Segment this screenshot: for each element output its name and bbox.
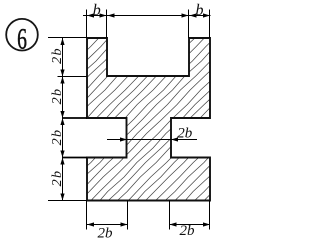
label 2b segment2 xyxy=(50,88,65,105)
arrowhead left-b pointing right xyxy=(100,13,107,17)
arrowhead left chain top pointing up xyxy=(60,38,64,45)
section outline xyxy=(87,38,210,201)
arrowhead right-b pointing right xyxy=(203,13,210,17)
bottom extension line x=169.5 xyxy=(169,201,171,230)
svg-text:2b: 2b xyxy=(98,225,114,241)
arrowhead neck left pointing right xyxy=(120,137,127,141)
arrowhead bottom-right pointing right xyxy=(203,222,210,226)
arrowhead pair at y=118 xyxy=(60,111,64,125)
arrowhead pair at y=157.5 xyxy=(60,151,64,165)
bottom extension line x=127.5 xyxy=(127,201,129,230)
hatch lines clipped to section xyxy=(0,32,320,206)
arrowhead pair at y=76.5 xyxy=(60,70,64,84)
arrowhead neck right pointing left xyxy=(171,137,178,141)
label 2b neck xyxy=(177,125,193,141)
label b top-left xyxy=(93,2,101,19)
middle neck dimension line xyxy=(107,139,197,141)
arrowhead left-b pointing left xyxy=(87,13,94,17)
extension line left y=157.5 xyxy=(63,157,88,159)
label b top-right xyxy=(196,2,204,19)
extension line top notch-left x=107 xyxy=(106,10,108,39)
svg-text:b: b xyxy=(196,2,204,19)
extension line top left-edge x=87 xyxy=(86,10,88,39)
label 2b segment1 xyxy=(50,47,65,64)
label 2b segment4 xyxy=(50,170,65,187)
arrowhead left chain bottom pointing down xyxy=(60,194,64,201)
left dimension chain vertical line xyxy=(62,38,64,201)
svg-text:2b: 2b xyxy=(177,125,193,141)
figure number badge circle xyxy=(6,19,38,51)
top dimension line xyxy=(83,15,211,17)
figure number 6 xyxy=(17,22,27,55)
svg-text:2b: 2b xyxy=(50,170,65,187)
arrowhead right-b pointing left xyxy=(190,13,197,17)
arrowhead mid pointing left xyxy=(108,13,115,17)
bottom extension line x=87 xyxy=(86,201,88,230)
arrowhead bottom-right pointing left xyxy=(170,222,177,226)
extension line left y=200.5 xyxy=(48,200,87,202)
svg-text:2b: 2b xyxy=(180,223,196,239)
bottom-left dimension line xyxy=(87,224,128,226)
label 2b bottom-left xyxy=(98,225,114,241)
bottom-right dimension line xyxy=(170,224,211,226)
svg-text:2b: 2b xyxy=(50,129,65,146)
extension line top right-edge x=210 xyxy=(209,10,211,39)
label 2b segment3 xyxy=(50,129,65,146)
svg-text:2b: 2b xyxy=(50,47,65,64)
arrowhead bottom-left pointing right xyxy=(121,222,128,226)
extension line top notch-right x=189 xyxy=(188,10,190,39)
arrowhead mid pointing right xyxy=(182,13,189,17)
label 2b bottom-right xyxy=(180,223,196,239)
svg-text:6: 6 xyxy=(17,22,27,55)
extension line left y=38 xyxy=(48,37,87,39)
bottom extension line x=210 xyxy=(209,201,211,230)
arrowhead bottom-left pointing left xyxy=(87,222,94,226)
extension line left y=76.5 xyxy=(58,76,88,78)
svg-text:2b: 2b xyxy=(50,88,65,105)
extension line left y=118 xyxy=(63,117,88,119)
svg-text:b: b xyxy=(93,2,101,19)
